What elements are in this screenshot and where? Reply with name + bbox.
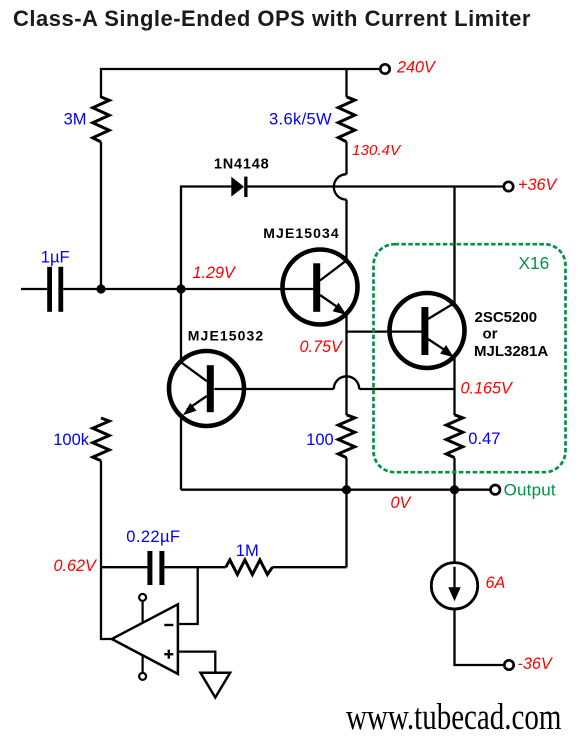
wire 0.62V node down to op-amp output xyxy=(101,567,112,639)
node input-diode junction xyxy=(176,284,185,293)
capacitor C 1uF xyxy=(47,267,63,312)
wire hop over emitter line xyxy=(334,376,359,389)
wire 3.6k to hop xyxy=(345,142,347,174)
svg-text:240V: 240V xyxy=(396,59,437,77)
svg-text:MJE15032: MJE15032 xyxy=(188,327,265,343)
svg-text:2SC5200: 2SC5200 xyxy=(475,309,538,326)
wire Q1 emitter down through hop to 100 resistor xyxy=(345,313,347,415)
node 0V-0.47 junction xyxy=(450,485,459,494)
wire 0.47 to 0V rail xyxy=(453,458,455,490)
X16 dashed group box xyxy=(374,244,566,472)
wire cap to 1M xyxy=(164,566,225,568)
svg-text:0.22µF: 0.22µF xyxy=(126,528,180,546)
terminal op-amp V+ xyxy=(139,594,146,601)
svg-text:1M: 1M xyxy=(236,542,259,560)
wire 100 to 0V rail xyxy=(345,458,347,490)
svg-text:3.6k/5W: 3.6k/5W xyxy=(269,111,332,129)
svg-text:-36V: -36V xyxy=(518,655,554,673)
wire inverting input riser xyxy=(178,567,198,624)
svg-text:1.29V: 1.29V xyxy=(193,264,238,282)
terminal op-amp V- xyxy=(139,673,146,680)
wire hop to Q1 collector xyxy=(345,200,347,261)
wire 1M to 0V drop xyxy=(272,566,346,568)
resistor R 100 xyxy=(338,415,355,458)
wire 0V rail xyxy=(181,489,490,491)
svg-text:3M: 3M xyxy=(64,111,87,129)
wire Q3 emitter down xyxy=(453,356,455,415)
svg-text:0V: 0V xyxy=(391,494,413,512)
wire Q2 base to hop xyxy=(214,388,333,390)
svg-text:0.62V: 0.62V xyxy=(54,557,99,575)
ground xyxy=(201,673,231,698)
transistor Q1 MJE15034 xyxy=(283,250,358,325)
wire +36V rail to Q3 collector xyxy=(453,187,455,304)
svg-text:MJL3281A: MJL3281A xyxy=(474,343,548,360)
capacitor C 0.22uF xyxy=(147,551,164,585)
wire hop over +36V rail xyxy=(334,174,347,199)
svg-text:Class-A Single-Ended OPS with: Class-A Single-Ended OPS with Current Li… xyxy=(13,6,531,31)
wire 100k to 0.62V node xyxy=(100,461,102,568)
wire +36V rail xyxy=(247,185,504,187)
wire current source to -36V xyxy=(455,609,505,665)
terminal Output xyxy=(491,485,500,494)
svg-text:www.tubecad.com: www.tubecad.com xyxy=(346,698,562,738)
terminal +36V xyxy=(504,182,513,191)
resistor R 0.47 xyxy=(446,415,463,458)
wire 3M bottom to input node xyxy=(100,142,102,289)
transistor Q3 2SC5200/MJL3281A xyxy=(390,293,465,368)
svg-text:100: 100 xyxy=(306,431,334,449)
svg-text:0.47: 0.47 xyxy=(468,430,500,448)
transistor Q2 MJE15032 xyxy=(169,351,244,426)
current source I1 6A xyxy=(431,563,477,609)
wire top 240V rail xyxy=(101,69,380,98)
svg-text:130.4V: 130.4V xyxy=(352,142,402,159)
svg-text:X16: X16 xyxy=(519,253,550,273)
svg-text:1µF: 1µF xyxy=(41,249,70,267)
wire 0V rail down to current source xyxy=(453,490,455,563)
wire op-amp V- pin xyxy=(142,656,144,673)
svg-text:MJE15034: MJE15034 xyxy=(263,225,340,241)
resistor R 1M xyxy=(226,560,273,575)
terminal -36V xyxy=(504,660,513,669)
wire 0.62V node to cap xyxy=(101,566,147,568)
svg-text:100k: 100k xyxy=(53,431,90,449)
diode D1 1N4148 xyxy=(231,177,247,197)
label 2SC5200 or MJL3281A xyxy=(474,309,548,360)
svg-text:0.165V: 0.165V xyxy=(461,380,515,398)
wire hop to Q3 emitter line xyxy=(359,388,454,390)
wire diode anode branch xyxy=(181,187,232,290)
node input-3M junction xyxy=(96,284,105,293)
op-amp U1 xyxy=(112,604,178,674)
terminal 240V xyxy=(380,64,389,73)
resistor R 3M xyxy=(93,97,110,142)
wire input stub xyxy=(21,288,47,290)
svg-text:or: or xyxy=(483,326,498,343)
svg-text:1N4148: 1N4148 xyxy=(214,157,270,173)
resistor R 100k xyxy=(93,418,110,461)
wire input row to Q1 base xyxy=(63,288,313,290)
wire Q2 collector feed xyxy=(180,289,182,359)
wire 0V rail down to 1M corner xyxy=(345,490,347,568)
wire non-inverting input to ground xyxy=(178,652,215,673)
svg-text:6A: 6A xyxy=(486,574,506,592)
svg-text:Output: Output xyxy=(504,481,556,500)
wire op-amp V+ pin xyxy=(142,601,144,623)
svg-text:+36V: +36V xyxy=(518,176,558,194)
node 0V-100 junction xyxy=(342,485,351,494)
svg-text:0.75V: 0.75V xyxy=(300,338,345,356)
wire 0.75V node to Q3 base xyxy=(347,330,422,332)
wire Q2 emitter down to 0V rail xyxy=(180,414,182,490)
resistor R 3.6k/5W xyxy=(345,69,347,97)
